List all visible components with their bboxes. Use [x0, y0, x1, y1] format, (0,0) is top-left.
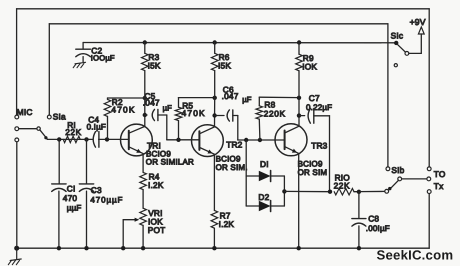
svg-text:TR2: TR2 — [226, 140, 242, 150]
wire bottom ground rail — [17, 193, 430, 248]
svg-text:TO: TO — [434, 169, 446, 179]
svg-text:I5K: I5K — [218, 61, 231, 71]
wire C5 to stage 2 base — [167, 115, 200, 140]
svg-text:.00IµF: .00IµF — [366, 224, 390, 233]
svg-text:C3: C3 — [91, 185, 102, 195]
capacitor C6 .047uF — [215, 84, 252, 121]
svg-text:220K: 220K — [264, 109, 286, 119]
wire C6 to stage 3 base — [238, 116, 285, 141]
svg-text:SIb: SIb — [391, 165, 404, 175]
MIC input jack terminals — [15, 107, 33, 246]
svg-text:SIc: SIc — [391, 31, 404, 41]
svg-text:I.2K: I.2K — [219, 219, 235, 229]
wire R9 to collector — [298, 98, 300, 126]
switch S1a — [19, 111, 66, 139]
node C8 ground junction — [357, 246, 361, 250]
svg-text:I.2K: I.2K — [148, 180, 164, 190]
node TR3 emitter ground junction — [297, 246, 301, 250]
resistor R3 15K — [142, 43, 161, 98]
svg-text:.047: .047 — [143, 98, 160, 108]
node R2-base junction — [105, 137, 109, 141]
node C5 takeoff junction — [143, 113, 147, 117]
svg-text:OR SIM: OR SIM — [298, 168, 328, 177]
node R5 feedback junction — [213, 96, 217, 100]
node C3 ground junction — [84, 246, 88, 250]
node ground rail left end junction — [14, 246, 19, 251]
resistor R4 1.2K — [140, 154, 164, 190]
wire S1a to S1b link (upper horizontal) — [49, 24, 388, 167]
svg-text:0.IµF: 0.IµF — [87, 123, 106, 132]
resistor R10 22K — [334, 172, 359, 195]
transistor TR2 BC109 — [192, 125, 224, 157]
node R5-base junction — [176, 138, 180, 142]
wire R3 to collector — [144, 98, 146, 126]
node C6 takeoff junction — [212, 113, 216, 117]
diode D2 — [246, 176, 284, 212]
node C7 takeoff junction — [297, 113, 301, 117]
resistor R9 10K — [296, 43, 318, 98]
node C1 junction — [57, 137, 61, 141]
svg-text:POT: POT — [148, 225, 166, 235]
svg-text:22K: 22K — [334, 181, 351, 191]
svg-text:470K: 470K — [182, 108, 206, 118]
svg-text:470: 470 — [63, 193, 78, 203]
svg-text:IOK: IOK — [302, 62, 317, 72]
node R8 feedback junction — [297, 96, 301, 100]
capacitor C8 .001uF — [352, 192, 390, 248]
node C7 output junction — [328, 190, 332, 194]
svg-text:SeekIC.com: SeekIC.com — [377, 248, 454, 263]
svg-text:µF: µF — [163, 104, 173, 113]
wire +9V supply rail — [83, 42, 394, 44]
node R4 chain ground junction — [141, 246, 145, 250]
capacitor C7 0.22uF — [299, 93, 332, 123]
node diode output junction — [282, 189, 286, 193]
svg-text:470K: 470K — [111, 104, 135, 114]
node R9 supply junction — [297, 40, 301, 44]
node diode junction — [244, 138, 248, 142]
svg-text:OR SIM.: OR SIM. — [216, 163, 248, 172]
svg-text:22K: 22K — [65, 127, 82, 137]
resistor R2 470K — [104, 97, 145, 140]
wire input base line stage 1 — [47, 138, 129, 140]
node R8-base junction — [258, 138, 262, 142]
svg-text:I5K: I5K — [148, 61, 161, 71]
capacitor C5 .047uF — [143, 91, 172, 121]
wire diode output side — [283, 176, 285, 206]
ground symbol (main, bottom left) — [8, 248, 21, 265]
capacitor C1 470uuF — [52, 139, 82, 248]
resistor R7 1.2K — [211, 154, 234, 248]
svg-text:C8: C8 — [368, 214, 379, 224]
svg-text:C7: C7 — [309, 93, 320, 103]
svg-text:SIa: SIa — [53, 111, 66, 121]
diode D1 — [246, 140, 284, 182]
capacitor C4 0.1uF — [87, 114, 106, 147]
switch S1b — [385, 165, 427, 193]
svg-text:D2: D2 — [258, 192, 269, 202]
node R2 feedback junction — [143, 96, 147, 100]
potentiometer VR1 10K — [123, 190, 165, 249]
transistor TR1 BC109 — [120, 124, 152, 156]
node C1 ground junction — [57, 246, 61, 250]
terminal TO/TX output — [427, 167, 446, 194]
node C8 junction — [357, 190, 361, 194]
svg-text:Tx: Tx — [434, 181, 444, 191]
node R3 supply junction — [143, 40, 147, 44]
wire R8 feedback stub — [259, 96, 299, 98]
supply +9V terminal — [409, 17, 426, 53]
wire output node to R10 — [284, 190, 331, 192]
svg-text:MIC: MIC — [17, 107, 33, 117]
wire C7 to output node — [329, 116, 331, 192]
switch S1c — [391, 31, 409, 67]
wire R6 to collector — [214, 98, 216, 127]
svg-text:.047: .047 — [222, 91, 239, 101]
node C3 junction — [84, 137, 88, 141]
svg-text:TR3: TR3 — [311, 141, 327, 151]
resistor R6 15K — [211, 43, 231, 98]
capacitor C2 100uF — [76, 43, 115, 63]
ground symbol (below C2) — [73, 62, 85, 67]
resistor R8 220K — [256, 97, 286, 140]
wire R5 feedback stub — [179, 97, 215, 99]
svg-text:µµF: µµF — [67, 203, 82, 212]
wire top shield line from MIC to TO terminal — [17, 9, 430, 167]
transistor TR3 BC109 — [275, 124, 307, 156]
wire R10 to S1b — [359, 190, 385, 192]
svg-text:IOOµF: IOOµF — [91, 53, 115, 62]
svg-text:DI: DI — [260, 159, 269, 169]
svg-text:470µµF: 470µµF — [90, 195, 123, 204]
svg-text:+9V: +9V — [410, 17, 426, 27]
capacitor C3 470uuF — [79, 139, 123, 248]
wire TR3 emitter to ground — [298, 154, 300, 249]
svg-text:µF: µF — [242, 95, 252, 104]
node VR1 wiper ground junction — [121, 246, 125, 250]
resistor R5 470K — [175, 98, 206, 140]
resistor R1 22K — [63, 120, 82, 142]
svg-text:OR SIMILAR: OR SIMILAR — [146, 158, 194, 167]
svg-text:0.22µF: 0.22µF — [306, 103, 332, 112]
node R6 supply junction — [213, 40, 217, 44]
node R7 ground junction — [212, 246, 216, 250]
